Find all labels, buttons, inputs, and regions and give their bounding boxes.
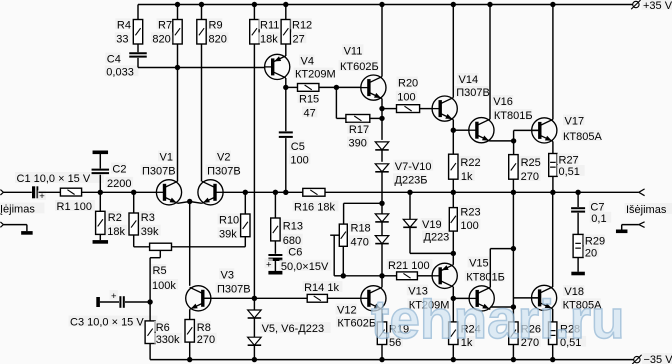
svg-text:tehnari.ru: tehnari.ru: [371, 288, 625, 350]
watermark tehnari.ru: [371, 288, 625, 350]
diode V5: [248, 310, 262, 318]
wire V6 to rail: [253, 345, 255, 359]
ground output: [616, 230, 628, 234]
wire node to V15 base: [453, 297, 469, 299]
wire rail to R7: [177, 5, 179, 20]
node V4 collector/R15/C5: [283, 85, 288, 90]
wire tap node to V9: [381, 203, 383, 214]
wire gnd to C2: [99, 154, 101, 169]
wire rail to C7: [577, 192, 579, 207]
svg-text:C4: C4: [107, 54, 121, 66]
wire V12 emitter to R19: [381, 309, 383, 322]
wire bottom -35V rail: [150, 359, 633, 361]
svg-text:КТ801Б: КТ801Б: [494, 110, 533, 122]
resistor R18: [339, 221, 370, 248]
svg-text:0,1: 0,1: [591, 213, 606, 225]
svg-text:47: 47: [304, 108, 316, 120]
resistor R25: [509, 155, 541, 184]
wire rail V2-R13: [245, 191, 275, 193]
svg-text:КТ805А: КТ805А: [563, 131, 602, 143]
wire rail C5-R16: [286, 191, 303, 193]
wire emitters to V3 collector: [189, 202, 191, 286]
wire C7 to R29: [577, 213, 579, 235]
diode V10: [375, 236, 389, 244]
wire node down to R17: [336, 87, 346, 118]
resistor R27: [549, 154, 585, 179]
svg-text:C1 10,0 × 15 V: C1 10,0 × 15 V: [17, 173, 91, 185]
wire V14 emitter down: [452, 120, 454, 131]
svg-text:Д223: Д223: [424, 232, 450, 244]
resistor R17: [346, 115, 370, 150]
svg-text:П307В: П307В: [207, 166, 241, 178]
wire stub to V18 base: [513, 297, 539, 299]
wire node to R25: [513, 141, 515, 155]
node R25 rail: [511, 190, 516, 195]
wire rail to R9: [201, 5, 203, 20]
node V14 emitter/R22/V16 base: [451, 128, 456, 133]
svg-text:R2: R2: [108, 212, 122, 224]
wire emitter node down: [381, 109, 383, 119]
wire R23 to node: [452, 231, 454, 253]
wire rail down to V18 base: [512, 192, 514, 307]
svg-text:50,0×15V: 50,0×15V: [281, 261, 329, 273]
wire V8 to tap node: [381, 172, 383, 204]
ground C2 top: [93, 151, 109, 155]
svg-text:V15: V15: [469, 258, 489, 270]
terminal input ground: [0, 222, 3, 227]
capacitor C6: [265, 246, 332, 273]
diode V8: [375, 160, 433, 187]
svg-text:+: +: [111, 291, 117, 302]
node V15 emitter/V18 base/R26: [511, 304, 516, 309]
node diode string R18 tap: [379, 201, 384, 206]
node V14 collector rail: [451, 2, 456, 7]
wire rail R16 to output: [325, 191, 639, 193]
svg-text:П307В: П307В: [456, 87, 490, 99]
wire V5 to V6: [253, 318, 255, 338]
svg-text:Išėjimas: Išėjimas: [626, 204, 667, 216]
diode V9: [375, 214, 389, 222]
svg-text:V19: V19: [422, 219, 442, 231]
svg-text:R20: R20: [398, 78, 418, 90]
wire V3 emitter to R8: [189, 309, 191, 319]
wire V11 collector to rail: [381, 5, 383, 77]
capacitor C3: [69, 290, 158, 328]
svg-text:V4: V4: [301, 56, 314, 68]
terminal -35V: [632, 353, 672, 364]
node V13 emitter/R23/V19: [451, 251, 456, 256]
wire R7 to V1 collector: [177, 44, 179, 181]
wire V17 collector to rail: [552, 5, 554, 120]
node R28 bottom: [550, 357, 555, 362]
node V19 rail: [407, 190, 412, 195]
svg-text:100: 100: [460, 220, 478, 232]
wire V3 base to node: [203, 297, 255, 299]
svg-text:R22: R22: [460, 157, 480, 169]
wire V4 collector down: [285, 78, 287, 87]
wire output ground: [622, 225, 639, 230]
svg-text:V11: V11: [344, 45, 363, 57]
wire node to V16 base: [453, 129, 469, 131]
node R10 top: [243, 190, 248, 195]
ground input: [21, 231, 33, 235]
wire C5 to rail: [285, 138, 287, 192]
node V11 emitter/R20: [379, 106, 384, 111]
wire R13 to C6: [274, 241, 276, 254]
wire V15 emitter: [490, 306, 513, 308]
svg-text:V2: V2: [217, 152, 230, 164]
transistor V13: [407, 263, 458, 311]
svg-text:V7-V10: V7-V10: [395, 161, 432, 173]
wire node to R14: [254, 297, 307, 299]
node C5 bottom: [283, 190, 288, 195]
wire input ground: [3, 225, 27, 232]
svg-text:C3 10,0 × 15 V: C3 10,0 × 15 V: [70, 317, 144, 329]
svg-text:R17: R17: [349, 124, 369, 136]
terminal output ground: [639, 222, 645, 228]
node R13 top: [273, 190, 278, 195]
svg-text:R5: R5: [153, 265, 167, 277]
wire V14 collector to rail: [452, 5, 454, 98]
wire R27 to rail: [552, 176, 554, 192]
wire R15 to V11 base: [319, 86, 361, 88]
node R18 bottom: [341, 273, 346, 278]
node R9 top: [199, 2, 204, 7]
wire gnd to C3: [100, 301, 119, 303]
transistor V16: [469, 95, 533, 143]
node R7/C4 junction: [175, 65, 180, 70]
resistor R9: [197, 18, 229, 45]
resistor R4: [115, 18, 143, 45]
svg-text:R7: R7: [158, 19, 172, 31]
resistor R3: [129, 211, 161, 238]
svg-text:470: 470: [351, 236, 369, 248]
wire node to V5: [253, 298, 255, 310]
node V13 collector/V15 base/R24: [451, 296, 456, 301]
svg-text:+: +: [266, 260, 272, 271]
capacitor C4: [105, 53, 147, 79]
node R26 bottom: [511, 357, 516, 362]
svg-text:V3: V3: [221, 269, 234, 281]
wire V19 to node: [410, 227, 453, 253]
wire V1 emitter to node: [178, 202, 190, 204]
svg-text:680: 680: [283, 235, 301, 247]
label output Išėjimas: [625, 203, 672, 216]
resistor R28: [549, 322, 587, 349]
transistor V3: [186, 268, 251, 311]
wire node to R15: [286, 86, 298, 88]
svg-text:R10: R10: [219, 215, 239, 227]
wire V10 to V12 collector node: [381, 244, 383, 276]
diode V19: [403, 218, 449, 244]
node V12 collector/R21: [379, 273, 384, 278]
capacitor C7: [571, 201, 611, 225]
node R27/V18 collector rail: [550, 190, 555, 195]
wire C3 to node: [125, 301, 150, 303]
node R7 top: [175, 2, 180, 7]
svg-text:18k: 18k: [260, 33, 278, 45]
svg-text:Įėjimas: Įėjimas: [0, 204, 35, 216]
svg-text:V14: V14: [459, 74, 479, 86]
wire R1 to V1 base: [82, 191, 157, 193]
wire V11 emitter to R20: [382, 108, 397, 110]
resistor R23: [449, 205, 480, 231]
svg-text:0,51: 0,51: [559, 166, 580, 178]
wire R17 to emitter node: [370, 117, 382, 119]
wire node to R13: [274, 192, 276, 218]
svg-text:+35 V: +35 V: [643, 0, 672, 12]
svg-text:C7: C7: [590, 202, 604, 214]
svg-text:33: 33: [116, 33, 128, 45]
wire R18 bottom: [342, 246, 344, 275]
wire R22 to rail: [452, 179, 454, 192]
transistor V17: [532, 115, 603, 144]
resistor R6: [145, 321, 182, 346]
node V11 base/R17: [334, 85, 339, 90]
svg-text:820: 820: [152, 33, 170, 45]
resistor R7: [151, 18, 182, 45]
wire V13 collector down: [452, 287, 454, 299]
capacitor C5: [279, 132, 311, 166]
ground C6: [268, 271, 282, 275]
transistor V4: [265, 54, 336, 80]
terminal +35V: [631, 0, 672, 12]
svg-text:820: 820: [209, 33, 227, 45]
node R8 bottom: [187, 357, 192, 362]
wire R9 to V2 collector: [201, 44, 203, 181]
wire V15 collector L: [490, 249, 513, 288]
wire R4 to C4: [137, 44, 139, 52]
svg-text:R3: R3: [141, 212, 155, 224]
svg-text:R25: R25: [521, 157, 541, 169]
svg-text:R29: R29: [585, 236, 605, 248]
wire to diode V7: [381, 118, 383, 139]
resistor R10: [218, 214, 251, 241]
wire node up to V17 base: [514, 130, 540, 141]
svg-text:270: 270: [521, 171, 539, 183]
wire C4 to V4 base: [138, 58, 265, 68]
node emitters V1 V2: [187, 199, 192, 204]
svg-text:R12: R12: [292, 19, 312, 31]
wire node A to R2: [99, 192, 101, 211]
node V3 base/R11/R14/diodes: [252, 296, 257, 301]
svg-text:0,033: 0,033: [106, 66, 134, 78]
svg-text:C2: C2: [112, 164, 126, 176]
svg-text:П307В: П307В: [142, 166, 176, 178]
wire V16 emitter: [490, 140, 514, 142]
wire V2 emitter to node: [190, 202, 202, 204]
wire node B to R3: [133, 192, 135, 213]
transistor V1: [141, 151, 182, 205]
svg-text:R6: R6: [156, 322, 170, 334]
svg-text:КТ801Б: КТ801Б: [466, 272, 505, 284]
resistor R1: [55, 188, 95, 213]
svg-text:V1: V1: [160, 152, 173, 164]
resistor R8: [185, 320, 217, 346]
svg-text:R11: R11: [260, 19, 279, 31]
wire R25 to rail: [512, 179, 514, 192]
wire node to R6: [149, 302, 151, 321]
wire R28 to rail: [552, 345, 554, 360]
svg-text:V17: V17: [565, 116, 585, 128]
wire input to C1: [3, 191, 31, 193]
wire V16 collector to rail: [489, 5, 491, 120]
svg-text:39k: 39k: [219, 228, 237, 240]
svg-text:R8: R8: [197, 322, 211, 334]
svg-text:C6: C6: [288, 247, 302, 259]
transistor V11: [339, 44, 387, 100]
wire R12 to V4 emitter: [285, 44, 287, 56]
node R11 top: [252, 2, 257, 7]
svg-text:П307В: П307В: [217, 284, 251, 296]
svg-text:C5: C5: [291, 141, 305, 153]
node B junction V1 base/R3: [131, 190, 136, 195]
node V16 collector rail: [487, 2, 492, 7]
svg-text:R4: R4: [117, 19, 131, 31]
wire node to R24: [452, 298, 454, 322]
node R17/diode string: [379, 116, 384, 121]
svg-text:18k: 18k: [107, 226, 125, 238]
wire R29 to ground: [577, 258, 579, 272]
node A junction R1/C2/R2: [98, 190, 103, 195]
svg-text:V16: V16: [493, 96, 513, 108]
wire C6 to ground: [274, 260, 276, 271]
svg-text:R21 100: R21 100: [388, 260, 430, 272]
wire R11 to V3 base node: [253, 44, 255, 298]
label input Įėjimas: [0, 203, 45, 216]
wire node to R10: [244, 192, 246, 214]
resistor R15: [298, 84, 320, 120]
svg-text:27: 27: [293, 33, 305, 45]
resistor R21: [387, 259, 433, 280]
wire rail to R11: [253, 5, 255, 20]
wire tap to R18 top: [344, 203, 382, 224]
svg-text:V12: V12: [337, 305, 357, 317]
transistor V15: [465, 257, 505, 312]
svg-text:390: 390: [349, 138, 367, 150]
svg-text:2200: 2200: [107, 178, 131, 190]
resistor R26: [509, 322, 541, 349]
wire node to R26: [512, 307, 514, 322]
terminal input signal: [0, 190, 3, 195]
resistor R14: [303, 281, 343, 302]
resistor R22: [449, 154, 481, 183]
node C3/R5/R6: [147, 299, 152, 304]
wire rail to R4: [137, 5, 139, 20]
wire V12 collector up: [381, 276, 383, 288]
svg-text:КТ209М: КТ209М: [295, 69, 336, 81]
wire C1 to R1: [39, 191, 61, 193]
svg-text:R16 18k: R16 18k: [294, 202, 335, 214]
svg-text:R14 1k: R14 1k: [304, 282, 339, 294]
node R22/R23 rail: [451, 190, 456, 195]
wire node to C5: [285, 87, 287, 131]
transistor V18: [532, 285, 603, 311]
wire V18 emitter to R28: [552, 309, 554, 322]
wire R8 to rail: [189, 342, 191, 360]
wire top +35V rail: [138, 4, 633, 6]
svg-text:Д223Б: Д223Б: [395, 174, 428, 186]
svg-text:R27: R27: [559, 155, 579, 167]
wire V17 emitter to R27: [552, 141, 554, 153]
node R19 bottom: [379, 357, 384, 362]
ground R2 bottom: [93, 240, 109, 244]
terminal output signal: [639, 189, 645, 196]
wire R6 to rail: [149, 344, 151, 360]
resistor R2: [96, 211, 128, 238]
resistor R5 trimmer: [150, 243, 179, 292]
svg-text:270: 270: [197, 334, 215, 346]
wire R14 to V12 base: [327, 297, 360, 299]
wire rail to V19: [409, 192, 411, 219]
svg-text:R15: R15: [299, 93, 319, 105]
svg-text:39k: 39k: [141, 226, 159, 238]
svg-text:R9: R9: [209, 19, 223, 31]
wire R5 wiper: [150, 250, 160, 302]
svg-text:20: 20: [585, 247, 597, 259]
svg-text:100k: 100k: [152, 280, 176, 292]
wire V11 emitter down: [381, 99, 383, 109]
wire rail to R12: [285, 5, 287, 20]
wire V9 to V10: [381, 222, 383, 236]
resistor R19: [377, 322, 409, 349]
node V11 collector rail: [379, 2, 384, 7]
wire R20 to V14 base: [420, 108, 433, 110]
wire rail R13-C5: [275, 191, 285, 193]
wire rail to R23: [452, 192, 454, 207]
wire V13 emitter up: [452, 253, 454, 264]
diode V6: [248, 322, 331, 345]
resistor R11: [250, 18, 280, 45]
svg-text:R13: R13: [283, 221, 303, 233]
ground C3: [96, 297, 100, 307]
resistor R12: [281, 18, 312, 45]
wire R3 to R5: [134, 235, 150, 247]
wire V12 node to R21: [382, 275, 397, 277]
resistor R16: [293, 188, 339, 213]
capacitor C1: [15, 172, 104, 202]
svg-text:100: 100: [290, 154, 308, 166]
wire V18 collector up: [552, 192, 554, 287]
wire R10 to R5: [172, 237, 246, 247]
wire R18 to V12 collector: [343, 275, 382, 277]
svg-text:1k: 1k: [461, 171, 473, 183]
svg-text:R18: R18: [351, 222, 371, 234]
wire R18 wiper: [330, 235, 343, 276]
svg-text:V5, V6-Д223: V5, V6-Д223: [262, 323, 325, 335]
wire R21 to V13 base: [417, 275, 432, 277]
wire R19 to rail: [381, 345, 383, 360]
capacitor C2: [92, 163, 134, 190]
resistor R24: [449, 322, 481, 349]
wire V7 to V8: [381, 150, 383, 162]
node V15 collector: [511, 246, 516, 251]
svg-text:330k: 330k: [156, 334, 180, 346]
node V6 bottom: [252, 357, 257, 362]
transistor V12: [336, 286, 387, 330]
svg-text:−35 V: −35 V: [644, 354, 672, 364]
resistor R20: [396, 77, 420, 113]
node C7 rail: [575, 190, 580, 195]
node V16 emitter/R25/V17 base: [511, 138, 516, 143]
resistor R13: [271, 218, 303, 247]
wire R2 to ground: [99, 234, 101, 240]
node R12 top: [283, 2, 288, 7]
node R24 bottom: [451, 357, 456, 362]
wire R24 to rail: [452, 345, 454, 360]
svg-text:100: 100: [397, 92, 415, 104]
wire node to R22: [452, 130, 454, 154]
